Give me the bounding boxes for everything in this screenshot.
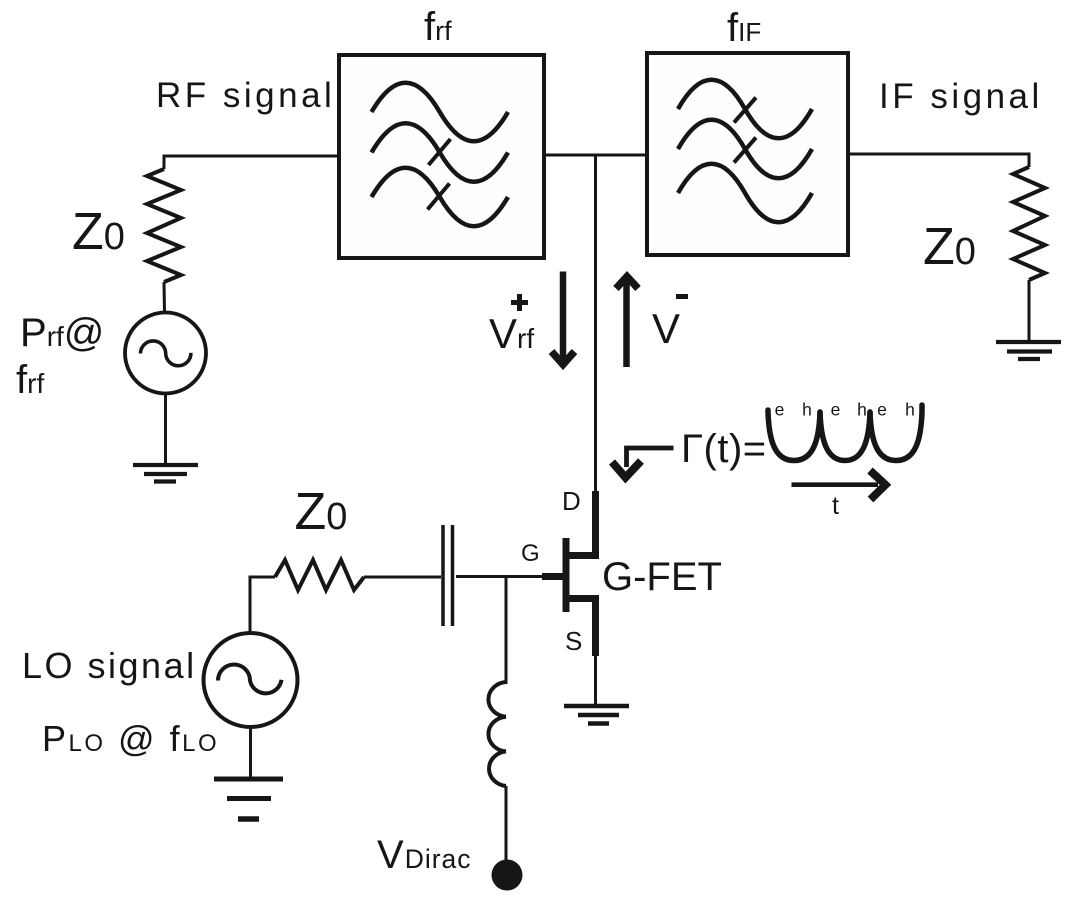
svg-text:t: t [832, 492, 839, 520]
svg-text:G-FET: G-FET [602, 555, 722, 599]
svg-text:h: h [905, 400, 915, 420]
wire: resistor to ground (IF) [1028, 280, 1031, 342]
ground (RF source) [133, 465, 198, 482]
ground (IF) [996, 342, 1061, 359]
wire: f_IF to Z0 (IF) [848, 154, 1029, 167]
svg-text:IF signal: IF signal [879, 77, 1043, 116]
labels e h e h e h [775, 400, 915, 420]
arrow gamma pointer [612, 448, 674, 478]
wire: capacitor to gate [456, 575, 542, 578]
AC source LO [204, 633, 298, 727]
wire: inductor to V_Dirac [505, 786, 508, 860]
wire: LO source to resistor [250, 577, 275, 633]
node V_Dirac [492, 860, 523, 891]
svg-text:G: G [521, 540, 540, 567]
wire: RF source to ground [164, 394, 167, 466]
svg-text:h: h [802, 400, 812, 420]
svg-text:e: e [877, 400, 887, 420]
filter f_IF [647, 53, 848, 255]
arrow t axis [792, 471, 886, 500]
inductor (bias choke) [488, 682, 506, 786]
wire: FET source to ground [594, 656, 597, 704]
filter f_rf [339, 55, 544, 258]
label + [511, 294, 528, 311]
svg-text:D: D [562, 486, 581, 516]
svg-text:e: e [831, 400, 841, 420]
wire: resistor to capacitor [364, 576, 441, 579]
svg-text:LO signal: LO signal [22, 645, 197, 686]
waveform Gamma(t) [768, 405, 922, 461]
wire: node to FET drain [594, 155, 597, 493]
svg-text:h: h [857, 400, 867, 420]
resistor Z0 (IF) [1013, 167, 1045, 280]
ground (LO) [214, 779, 283, 819]
svg-text:V: V [652, 305, 680, 352]
AC source P_rf [125, 313, 206, 394]
resistor Z0 (RF) [147, 169, 181, 282]
svg-text:Γ(t)=: Γ(t)= [681, 427, 767, 471]
wire: f_rf to f_IF node [544, 154, 647, 157]
arrow V- (up) [616, 277, 638, 368]
resistor Z0 (LO) [275, 560, 364, 590]
capacitor (DC block) [443, 525, 453, 626]
wire: gate junction to inductor [505, 577, 508, 685]
wire: resistor to RF source [163, 282, 167, 313]
svg-text:e: e [775, 400, 785, 420]
ground (FET source) [564, 706, 629, 724]
wire: RF branch to filter f_rf [164, 156, 339, 169]
svg-text:S: S [565, 626, 582, 656]
wire: LO source to ground [249, 727, 252, 779]
transistor G-FET [542, 491, 599, 656]
arrow Vrf+ (down) [552, 272, 575, 365]
svg-text:RF signal: RF signal [156, 76, 335, 115]
